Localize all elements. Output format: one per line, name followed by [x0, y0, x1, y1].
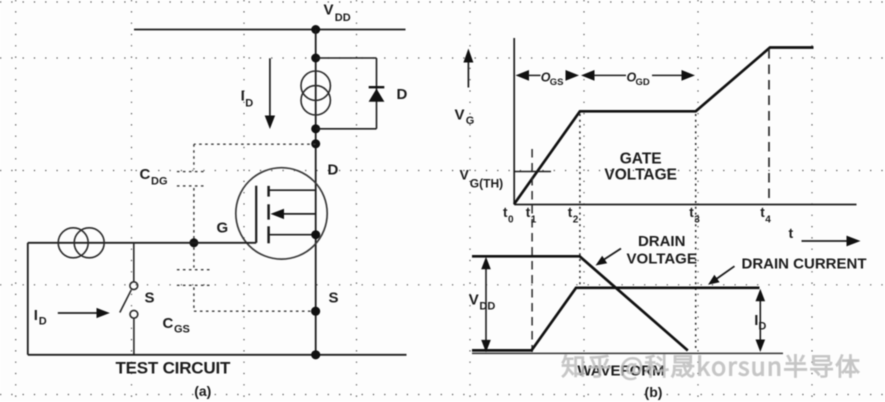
svg-text:V: V: [324, 2, 334, 19]
node CDG tap: [311, 139, 320, 148]
svg-text:DD: DD: [479, 301, 495, 313]
VG(TH) level line: [514, 171, 551, 173]
svg-text:V: V: [460, 167, 470, 183]
dashed line t4: [768, 49, 770, 205]
svg-text:GS: GS: [174, 324, 190, 336]
node bottom: [311, 350, 320, 359]
svg-text:VOLTAGE: VOLTAGE: [627, 250, 697, 267]
arrow VG axis: [463, 49, 473, 88]
svg-text:1: 1: [531, 215, 537, 226]
dimension arrow ID (waveform): [756, 289, 766, 352]
svg-text:C: C: [163, 315, 174, 332]
wire left rail: [27, 243, 29, 355]
svg-text:G: G: [466, 115, 475, 127]
svg-text:G(TH): G(TH): [470, 177, 503, 191]
dimension arrow VDD: [481, 257, 491, 353]
transistor Q1 MOSFET: [236, 168, 327, 259]
svg-text:2: 2: [573, 215, 579, 226]
label ID (top): [241, 88, 254, 110]
svg-text:S: S: [145, 290, 155, 307]
arrow ID (bottom): [58, 308, 110, 318]
svg-text:V: V: [469, 292, 479, 309]
svg-text:C: C: [140, 166, 151, 183]
arrow to drain current: [708, 266, 735, 285]
svg-text:D: D: [39, 316, 47, 328]
label t3: [689, 205, 700, 226]
svg-text:GD: GD: [636, 77, 650, 88]
svg-text:DG: DG: [151, 176, 168, 188]
svg-text:D: D: [397, 86, 408, 103]
net VDD label: [324, 2, 351, 25]
switch S: [120, 243, 138, 355]
svg-text:D: D: [758, 321, 766, 333]
node current source top: [311, 54, 320, 63]
current source I1: [301, 71, 330, 115]
svg-text:GS: GS: [550, 77, 564, 88]
capacitor CGS (dashed): [177, 247, 316, 311]
svg-text:G: G: [217, 220, 229, 237]
wire zero baseline: [472, 352, 783, 354]
label CGS: [163, 315, 190, 336]
svg-text:3: 3: [694, 215, 700, 226]
node current source bottom: [311, 124, 320, 133]
svg-text:(a): (a): [194, 383, 211, 399]
dotted line t2: [579, 114, 581, 288]
node VDD junction: [311, 25, 320, 34]
label t2: [568, 205, 579, 226]
label DRAIN VOLTAGE: [627, 233, 697, 267]
svg-text:I: I: [241, 88, 245, 105]
svg-text:GATE: GATE: [620, 150, 662, 167]
svg-text:TEST CIRCUIT: TEST CIRCUIT: [115, 358, 231, 377]
gate voltage waveform: [514, 48, 813, 205]
label CDG: [140, 166, 168, 188]
current source I2: [58, 228, 104, 258]
diode D: [369, 58, 385, 129]
label ID (waveform): [754, 312, 766, 333]
wire VDD rail: [134, 29, 406, 31]
svg-text:S: S: [329, 290, 339, 307]
node source tap: [311, 307, 320, 316]
wire bottom rail: [28, 354, 407, 356]
svg-text:D: D: [245, 98, 253, 110]
label t1: [526, 205, 537, 226]
watermark: [562, 355, 860, 380]
label t4: [760, 205, 771, 226]
label VG(TH): [460, 167, 504, 191]
label t0: [503, 205, 514, 226]
capacitor CDG (dashed): [177, 144, 316, 238]
wire to diode top: [316, 57, 377, 59]
svg-text:t: t: [789, 225, 794, 241]
svg-text:DRAIN CURRENT: DRAIN CURRENT: [742, 256, 867, 273]
label VDD (waveform): [469, 292, 496, 313]
arrow t axis: [802, 236, 861, 247]
arrow ID (top): [265, 58, 275, 129]
svg-text:V: V: [455, 107, 465, 124]
drain voltage waveform: [472, 256, 688, 350]
wire drain rail vertical: [315, 30, 317, 355]
svg-text:D: D: [328, 162, 339, 179]
drain current waveform: [472, 288, 760, 351]
x-axis: [514, 204, 856, 206]
label ID (bottom): [34, 307, 47, 328]
label QGD: [627, 71, 650, 88]
label VG: [455, 107, 475, 128]
node gate: [189, 238, 198, 247]
dimension arrow QGD: [581, 70, 695, 81]
label QGS: [541, 71, 564, 88]
dashed line t1: [531, 149, 533, 352]
dimension arrow QGS: [516, 70, 580, 81]
svg-text:4: 4: [765, 215, 771, 226]
svg-text:I: I: [34, 307, 38, 324]
dotted line t3: [695, 114, 697, 351]
svg-text:0: 0: [508, 215, 514, 226]
svg-text:DRAIN: DRAIN: [638, 233, 686, 250]
svg-text:DD: DD: [335, 12, 351, 24]
wire to diode bottom: [316, 128, 377, 130]
arrow to drain voltage: [596, 249, 622, 266]
svg-text:(b): (b): [645, 384, 663, 400]
y-axis: [513, 38, 515, 205]
wire gate: [28, 242, 256, 244]
svg-text:VOLTAGE: VOLTAGE: [604, 167, 677, 184]
label GATE VOLTAGE: [604, 150, 677, 183]
